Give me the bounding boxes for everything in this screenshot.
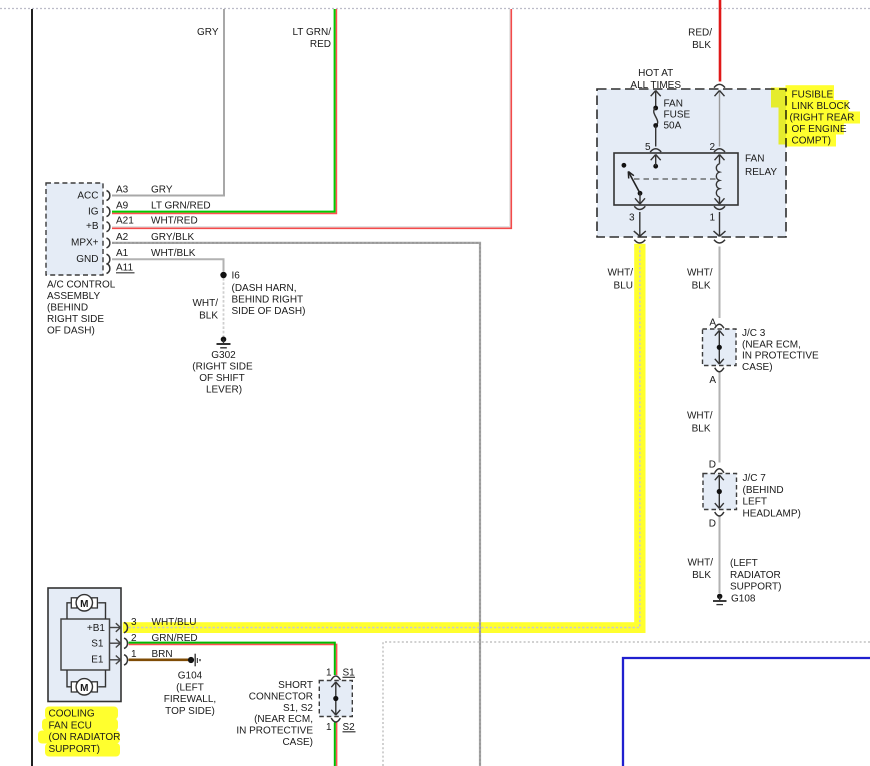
wire RED/BLK battery feed [719,0,722,82]
wire GRN/RED from ECU S1 to short connector S1 [129,643,337,675]
svg-text:WHT/: WHT/ [687,411,713,422]
wire WHT/RED from A21 [112,9,511,228]
svg-text:OF SHIFT: OF SHIFT [199,373,245,384]
svg-text:A21: A21 [116,216,134,227]
label COOLING FAN ECU [49,709,121,755]
wire WHT/BLK J/C7 to G108 [719,517,721,594]
relay pin 5 arc [650,149,661,152]
svg-text:TOP SIDE): TOP SIDE) [165,706,215,717]
svg-text:BRN: BRN [152,649,173,660]
svg-text:LT GRN/: LT GRN/ [292,27,331,38]
svg-text:ASSEMBLY: ASSEMBLY [47,291,100,302]
wire BRN from ECU E1 to G104 [129,658,189,661]
svg-text:WHT/: WHT/ [192,298,218,309]
short connector S1 S2 internals [331,676,340,722]
svg-text:WHT/RED: WHT/RED [151,216,198,227]
wire GRY from A3 [112,9,224,196]
svg-text:RELAY: RELAY [745,167,777,178]
svg-text:3: 3 [629,213,635,224]
svg-text:LEVER): LEVER) [206,385,242,396]
svg-text:FIREWALL,: FIREWALL, [164,694,216,705]
fan fuse 50A [651,91,661,147]
wire WHT/BLK from A1 to I6 [112,259,224,271]
svg-text:(BEHIND: (BEHIND [743,485,784,496]
svg-text:D: D [709,460,716,471]
svg-text:(LEFT: (LEFT [176,682,204,693]
label FUSIBLE LINK BLOCK [790,90,855,147]
wire WHT/BLK from I6 to G302 [223,278,225,337]
svg-text:FAN ECU: FAN ECU [49,720,92,731]
junction connector J/C 3 box [703,329,737,366]
ground G104 (case ground) [188,654,201,667]
svg-text:WHT/: WHT/ [607,268,633,279]
wire WHT/BLK relay pin1 to J/C3 [719,247,721,319]
svg-text:GRY: GRY [151,185,173,196]
label A/C CONTROL ASSEMBLY [47,280,116,337]
svg-text:IG: IG [88,206,99,217]
label LT GRN/RED (top) [292,27,331,50]
junction I6 [220,272,226,278]
svg-text:WHT/: WHT/ [687,268,713,279]
svg-text:1: 1 [131,649,137,660]
svg-text:(ON RADIATOR: (ON RADIATOR [49,732,121,743]
svg-text:A2: A2 [116,232,129,243]
wire pin1 to block edge with arrow [714,212,726,236]
svg-text:1: 1 [326,667,332,678]
highlight for COOLING FAN ECU label [38,707,120,757]
svg-text:SUPPORT): SUPPORT) [49,744,101,755]
wire fusible link internal to relay pin 2 [719,91,721,147]
svg-text:A9: A9 [116,201,129,212]
svg-text:A1: A1 [116,248,129,259]
relay U1 body box [614,153,738,205]
ECU pin names [87,623,106,666]
svg-text:2: 2 [709,142,715,153]
label WHT/BLK (I6 drop) [192,298,218,322]
svg-text:G302: G302 [211,350,236,361]
svg-text:G108: G108 [731,594,756,605]
label I6 junction [232,271,306,318]
relay switch common arrow (pin5) [651,155,661,169]
svg-text:GRY: GRY [197,27,219,38]
svg-text:BLK: BLK [692,281,711,292]
highlight for FUSIBLE LINK BLOCK label [771,85,860,146]
svg-text:(NEAR ECM,: (NEAR ECM, [254,714,313,725]
svg-text:1: 1 [326,722,332,733]
label S2 node [326,722,356,733]
svg-text:S1, S2: S1, S2 [283,703,313,714]
svg-text:1: 1 [709,213,715,224]
junction connector J/C 7 box [703,474,737,510]
svg-text:A/C CONTROL: A/C CONTROL [47,280,116,291]
svg-text:BLK: BLK [199,311,218,322]
relay switch arm and contacts [622,163,646,204]
ground G108 [713,594,727,605]
svg-text:WHT/BLK: WHT/BLK [151,248,196,259]
svg-text:BLU: BLU [614,281,633,292]
A/C pin numbers and wire colors [116,185,211,274]
connector arc at fusible block top (RED/BLK in) [714,84,725,87]
A/C connector pin arcs [107,191,110,274]
A/C control assembly connector box [46,183,103,275]
svg-text:(RIGHT REAR: (RIGHT REAR [790,112,855,123]
svg-text:BLK: BLK [692,40,711,51]
label G108 [730,558,782,605]
wire GRY/BLK from A2 [112,243,480,766]
svg-text:50A: 50A [664,121,682,132]
arrow into fusible block at pin2 feed [715,91,725,97]
svg-text:OF DASH): OF DASH) [47,326,95,337]
relay pin 1 arc below box [714,206,725,209]
svg-text:M: M [80,683,88,694]
svg-text:A: A [709,375,716,386]
svg-text:ALL TIMES: ALL TIMES [630,80,681,91]
svg-text:SIDE OF DASH): SIDE OF DASH) [232,306,306,317]
short connector S1 S2 box [319,681,352,717]
label RED/BLK (top) [688,28,712,52]
connector arc below block pin 1 [714,240,725,243]
svg-text:BEHIND RIGHT: BEHIND RIGHT [232,295,304,306]
svg-text:FUSE: FUSE [664,110,691,121]
svg-text:FUSIBLE: FUSIBLE [792,90,834,101]
relay pin 3 arc below box [634,206,645,209]
svg-text:E1: E1 [91,654,104,665]
ECU pin arrows and arcs [110,622,128,665]
svg-text:CASE): CASE) [282,737,313,748]
svg-text:LINK BLOCK: LINK BLOCK [792,101,851,112]
motor M top [67,595,106,619]
dotted boundary box (bottom) [383,642,870,766]
label HOT AT ALL TIMES [630,68,681,91]
svg-text:GRN/RED: GRN/RED [152,633,198,644]
svg-text:GND: GND [76,254,98,265]
svg-text:A11: A11 [116,263,133,274]
svg-text:G104: G104 [178,671,203,682]
svg-text:IN PROTECTIVE: IN PROTECTIVE [742,351,819,362]
label G104 [164,671,216,717]
wire LT GRN/RED from A9 [112,9,336,213]
svg-text:WHT/: WHT/ [687,558,713,569]
svg-text:IN PROTECTIVE: IN PROTECTIVE [236,726,313,737]
svg-text:(LEFT: (LEFT [730,558,758,569]
svg-text:LT GRN/RED: LT GRN/RED [151,201,211,212]
svg-text:M: M [80,599,88,610]
label G302 [192,350,253,396]
svg-text:HOT AT: HOT AT [638,68,673,79]
svg-text:5: 5 [645,142,651,153]
wire pin3 to block edge with arrow [634,212,646,236]
cooling fan ECU outer box [48,588,121,702]
svg-text:FAN: FAN [664,99,683,110]
J/C 3 internals [715,324,724,372]
svg-text:CASE): CASE) [742,362,773,373]
relay coil [715,155,725,205]
svg-text:J/C 3: J/C 3 [742,328,766,339]
label J/C 3 [742,328,819,373]
svg-text:MPX+: MPX+ [71,238,99,249]
svg-text:A3: A3 [116,185,129,196]
label FAN RELAY [745,154,777,179]
wire blue (unrelated circuit, bottom right) [623,658,870,766]
svg-text:COMPT): COMPT) [792,135,831,146]
svg-text:RIGHT SIDE: RIGHT SIDE [47,314,104,325]
svg-text:CONNECTOR: CONNECTOR [249,691,313,702]
svg-text:A: A [709,318,716,329]
svg-text:D: D [709,519,716,530]
wire GRN/RED below short connector S2 [335,723,337,766]
svg-text:FAN: FAN [745,154,764,165]
motor M bottom [67,670,106,695]
svg-text:WHT/BLU: WHT/BLU [152,617,197,628]
svg-text:+B: +B [86,221,99,232]
ECU wire numbers and colors [131,617,198,660]
ground G302 [217,337,231,348]
label WHT/BLK (below relay) [687,268,713,292]
label J/C 7 [743,473,801,519]
svg-text:RED/: RED/ [688,28,712,39]
svg-text:(NEAR ECM,: (NEAR ECM, [742,339,801,350]
wire WHT/BLU relay pin 3 down and to ECU (core under yellow) [129,247,640,628]
svg-text:J/C 7: J/C 7 [743,473,767,484]
svg-text:RED: RED [310,39,331,50]
wire black (unrelated circuit, left) [31,9,33,766]
svg-text:LEFT: LEFT [743,497,767,508]
wire WHT/BLK J/C3 to J/C7 [719,372,721,463]
relay internal dashed link [634,178,716,180]
relay pin 2 arc [714,149,725,152]
svg-text:ACC: ACC [77,190,98,201]
label S1 node [326,667,355,678]
svg-text:GRY/BLK: GRY/BLK [151,232,194,243]
svg-text:(DASH HARN,: (DASH HARN, [232,283,297,294]
svg-text:RADIATOR: RADIATOR [730,570,781,581]
svg-text:COOLING: COOLING [49,709,95,720]
svg-text:(BEHIND: (BEHIND [47,303,88,314]
svg-text:(RIGHT SIDE: (RIGHT SIDE [192,362,253,373]
svg-text:BLK: BLK [692,424,711,435]
svg-text:S2: S2 [343,722,356,733]
label SHORT CONNECTOR [236,680,313,748]
svg-text:3: 3 [131,617,137,628]
cooling fan ECU inner box [61,619,110,670]
label FAN FUSE 50A [664,99,691,132]
svg-text:2: 2 [131,633,137,644]
svg-text:HEADLAMP): HEADLAMP) [743,508,801,519]
fusible link block (dashed box) [597,89,786,237]
svg-text:I6: I6 [232,271,241,282]
svg-text:OF ENGINE: OF ENGINE [792,124,847,135]
svg-text:BLK: BLK [692,570,711,581]
label WHT/BLK (low) [687,558,713,582]
highlight band for WHT/BLU wire [123,244,646,633]
label WHT/BLU [607,268,633,292]
svg-text:S1: S1 [343,667,356,678]
J/C 7 internals [715,469,724,516]
label WHT/BLK (mid) [687,411,713,435]
svg-text:+B1: +B1 [87,623,106,634]
svg-text:SUPPORT): SUPPORT) [730,582,782,593]
svg-text:SHORT: SHORT [278,680,313,691]
connector arc below block pin 3 [634,240,645,243]
A/C pin name labels [71,190,99,265]
svg-text:S1: S1 [91,638,104,649]
